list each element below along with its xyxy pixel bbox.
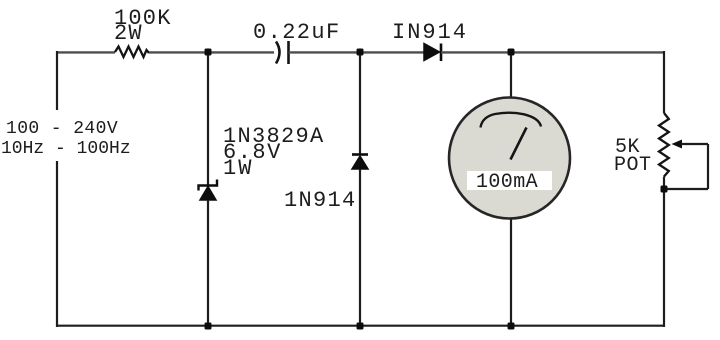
svg-text:1W: 1W xyxy=(223,156,253,181)
wire: diode D2 branch vertical upper xyxy=(359,51,361,154)
resistor R1 100K 2W zigzag xyxy=(115,47,149,58)
junction dot at pot wiper return xyxy=(661,186,668,193)
wire: zener branch vertical lower xyxy=(207,200,209,327)
wire: diode D2 branch vertical lower xyxy=(359,169,361,327)
svg-text:2W: 2W xyxy=(114,21,143,46)
wire: right vertical between pot and junction xyxy=(663,177,665,328)
junction dot bottom at diode D2 branch xyxy=(357,323,364,330)
wire: left vertical lower segment xyxy=(56,161,58,327)
diode D2 1N914 cathode bar xyxy=(352,153,368,156)
svg-text:POT: POT xyxy=(614,154,652,177)
meter M1 needle xyxy=(511,128,527,160)
meter M1 scale arc xyxy=(481,113,542,128)
wire: left vertical upper segment xyxy=(56,51,58,110)
diode D1 IN914 triangle xyxy=(424,44,440,61)
junction dot bottom at zener branch xyxy=(205,323,212,330)
diode D1 cathode bar xyxy=(440,44,443,62)
wire: wiper horizontal xyxy=(681,143,708,145)
wire: meter branch vertical upper xyxy=(510,51,512,99)
junction dot top at diode D2 branch xyxy=(357,49,364,56)
wire: meter branch vertical lower xyxy=(510,218,512,327)
junction dot top at meter branch xyxy=(508,49,515,56)
svg-text:100mA: 100mA xyxy=(476,171,538,194)
wire: top horizontal from resistor to capacitor xyxy=(149,51,274,53)
svg-text:IN914: IN914 xyxy=(392,20,468,45)
wire: top horizontal left segment (AC source to resistor) xyxy=(56,51,115,53)
diode D2 1N914 triangle xyxy=(352,156,368,169)
wire: top horizontal from capacitor to diode D1 xyxy=(289,51,425,53)
wire: wiper loop right vertical xyxy=(707,144,709,189)
meter M1 body circle xyxy=(449,98,570,219)
meter M1 label plate xyxy=(467,171,552,190)
zener diode Z1 triangle xyxy=(200,187,216,201)
capacitor C1 0.22uF curved plate xyxy=(276,42,280,64)
wire: wiper loop bottom horizontal xyxy=(664,188,708,190)
wire: bottom horizontal xyxy=(56,325,665,327)
svg-text:10Hz - 100Hz: 10Hz - 100Hz xyxy=(1,139,131,159)
wire: right vertical upper segment xyxy=(663,51,665,113)
wire: zener branch vertical upper xyxy=(207,51,209,185)
zener diode Z1 1N3829A bar with bent ends xyxy=(199,180,218,191)
svg-text:1N914: 1N914 xyxy=(284,188,357,213)
svg-text:100 - 240V: 100 - 240V xyxy=(6,119,118,139)
junction dot top at zener branch xyxy=(205,49,212,56)
capacitor C1 straight plate xyxy=(287,41,290,64)
svg-text:0.22uF: 0.22uF xyxy=(253,20,341,45)
wire: top horizontal from diode D1 to right corner xyxy=(441,51,664,53)
potentiometer wiper arrowhead xyxy=(672,140,683,149)
junction dot bottom at meter branch xyxy=(508,323,515,330)
potentiometer VR1 5K zigzag xyxy=(659,113,669,177)
